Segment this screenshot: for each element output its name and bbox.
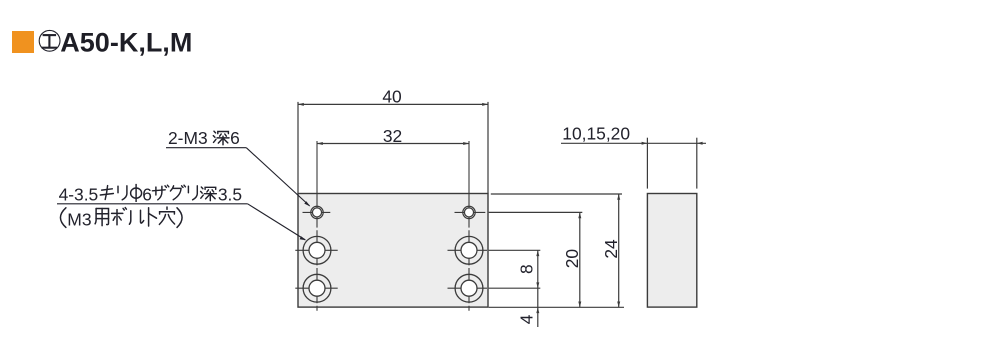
svg-text:10,15,20: 10,15,20 bbox=[562, 123, 630, 143]
svg-text:M3: M3 bbox=[67, 210, 91, 230]
svg-text:20: 20 bbox=[562, 249, 582, 268]
svg-text:3.5: 3.5 bbox=[218, 184, 242, 204]
svg-text:6: 6 bbox=[230, 128, 240, 148]
svg-text:A50-K,L,M: A50-K,L,M bbox=[60, 27, 192, 57]
svg-text:24: 24 bbox=[601, 239, 621, 259]
svg-text:32: 32 bbox=[383, 126, 402, 146]
svg-text:6: 6 bbox=[142, 184, 152, 204]
svg-text:8: 8 bbox=[516, 264, 536, 274]
svg-text:40: 40 bbox=[382, 87, 401, 107]
svg-text:4-3.5: 4-3.5 bbox=[59, 184, 99, 204]
svg-text:2-M3: 2-M3 bbox=[168, 128, 208, 148]
svg-text:4: 4 bbox=[517, 314, 537, 324]
